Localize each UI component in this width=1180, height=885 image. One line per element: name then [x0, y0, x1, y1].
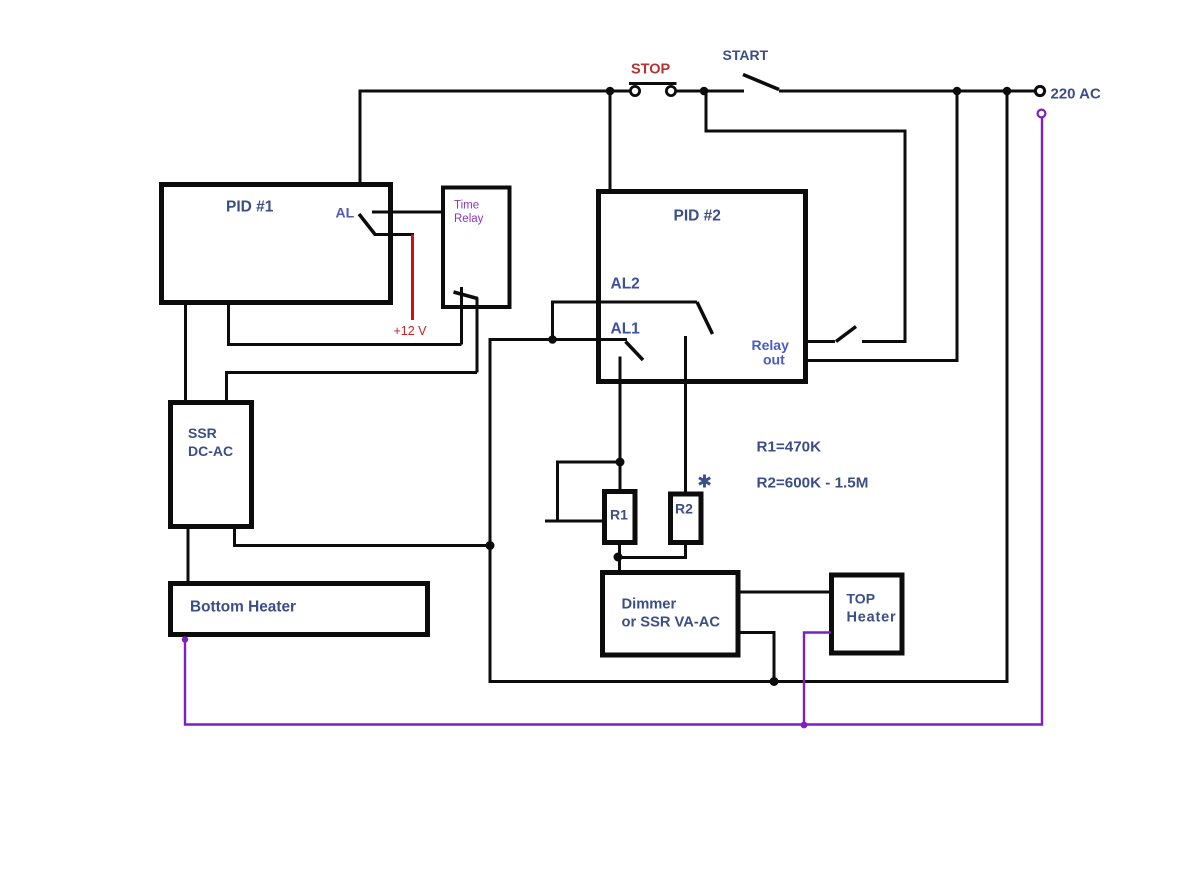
junction dot at PID2 feed — [606, 87, 615, 96]
switch AL2 blade — [697, 302, 713, 334]
junction dot at START left — [700, 87, 709, 96]
wire: R1 vertical from AL1 switch — [619, 357, 622, 492]
wire: long left vertical AL1 line to bottom bus — [489, 338, 492, 683]
box TOP Heater — [832, 575, 903, 653]
svg-text:Dimmer: Dimmer — [622, 597, 677, 613]
relay-out blade — [836, 327, 856, 342]
wire purple: TOP heater down to bottom run — [804, 633, 831, 725]
junction dot dimmer output / bottom bus — [770, 677, 779, 686]
svg-text:AL2: AL2 — [611, 276, 640, 293]
svg-text:220 AC: 220 AC — [1051, 86, 1101, 103]
box SSR DC-AC — [171, 403, 252, 527]
wire: R1 wiper loop — [558, 462, 621, 521]
wire: top rail right segment — [779, 90, 1036, 93]
junction dot R1/R2 bottoms — [614, 553, 623, 562]
wire: SSR down to Bottom Heater — [187, 527, 190, 583]
svg-text:SSR: SSR — [188, 425, 217, 441]
wire: top rail down to PID2 — [609, 91, 612, 191]
svg-text:START: START — [723, 47, 769, 63]
box PID #2 — [599, 192, 806, 382]
pushbutton STOP terminal circle right — [666, 86, 675, 95]
wire: PID1 output1 down to SSR — [184, 303, 187, 402]
junction dot R1 tap — [616, 458, 625, 467]
svg-text:R1: R1 — [610, 507, 628, 523]
svg-text:R1=470K: R1=470K — [757, 439, 822, 456]
wire: PID1 output2 to time relay bottom — [229, 303, 462, 345]
junction dot at right bus branch — [1003, 87, 1012, 96]
wire: START bypass via relay contact — [706, 93, 905, 342]
purple junction dot at Bottom Heater — [182, 636, 188, 642]
wire: AL2 branch up and into PID2 — [553, 302, 698, 341]
svg-text:STOP: STOP — [631, 62, 671, 78]
time relay contact input stem — [460, 287, 463, 345]
svg-text:R2: R2 — [675, 501, 693, 517]
svg-text:Relay: Relay — [454, 213, 484, 225]
box PID #1 — [162, 185, 391, 303]
svg-text:PID #2: PID #2 — [674, 208, 721, 225]
time relay contact blade — [454, 292, 478, 299]
relay-out fixed terminal line — [806, 340, 835, 343]
svg-text:Bottom Heater: Bottom Heater — [190, 599, 296, 616]
wire: R2 vertical from AL2 switch — [684, 336, 687, 494]
wire: dimmer output to TOP heater — [738, 591, 831, 594]
wire: dimmer lower output to bottom bus — [738, 633, 774, 682]
svg-text:Time: Time — [454, 200, 479, 212]
wire: top rail between STOP and START — [676, 90, 745, 93]
terminal 220 AC open circle — [1035, 86, 1044, 95]
wire: relay-out lower terminal to top rail — [808, 91, 957, 361]
pushbutton STOP (NC) bar — [629, 82, 677, 85]
switch START blade — [743, 75, 779, 90]
wire purple: bottom heater to 220AC neutral — [185, 118, 1042, 725]
switch AL moving terminal line — [374, 233, 414, 236]
wire: time relay output across to SSR input — [227, 373, 478, 403]
wire: R1 wiper stub — [545, 520, 558, 523]
switch AL blade — [359, 214, 376, 235]
junction dot SSR output / long vertical — [486, 541, 495, 550]
svg-text:out: out — [763, 352, 785, 368]
svg-text:Heater: Heater — [847, 610, 897, 626]
box Bottom Heater — [171, 584, 428, 635]
label asterisk — [699, 475, 710, 488]
wire: top rail down to PID1 — [359, 90, 362, 185]
svg-text:+12 V: +12 V — [394, 324, 428, 338]
svg-text:TOP: TOP — [847, 591, 876, 607]
wire: AL1 line from long vertical into PID2 — [489, 338, 628, 341]
relay-out moving terminal line — [862, 340, 905, 343]
svg-text:PID #1: PID #1 — [226, 199, 274, 216]
box Time Relay — [443, 188, 510, 308]
svg-text:AL1: AL1 — [611, 321, 641, 338]
pushbutton STOP terminal circle left — [630, 86, 639, 95]
switch AL fixed line to Time Relay — [372, 211, 443, 214]
wire: right vertical bus to bottom — [489, 91, 1008, 682]
svg-text:AL: AL — [336, 205, 355, 221]
box Dimmer or SSR VA-AC — [603, 573, 739, 656]
wire: R2 bottom over to R1 bottom — [620, 542, 686, 558]
junction dot AL2 branch — [548, 335, 557, 344]
wire: SSR output right to long bus — [235, 527, 491, 546]
svg-text:DC-AC: DC-AC — [188, 443, 233, 459]
svg-text:R2=600K - 1.5M: R2=600K - 1.5M — [757, 475, 869, 492]
junction dot at hold-line branch — [953, 87, 962, 96]
switch AL1 blade — [626, 342, 644, 361]
wire +12V red — [411, 235, 414, 321]
wire: 220AC top rail left segment — [359, 90, 631, 93]
terminal purple open circle — [1038, 110, 1046, 118]
purple junction dot on bottom run — [801, 722, 808, 729]
wire: R1 bottom to dimmer — [618, 542, 621, 572]
svg-text:or SSR VA-AC: or SSR VA-AC — [622, 615, 721, 631]
resistor R2 — [671, 494, 702, 543]
resistor R1 — [605, 492, 636, 543]
time relay contact output wire down — [476, 298, 479, 373]
